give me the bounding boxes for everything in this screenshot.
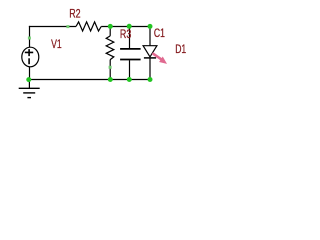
terminal tick V1 top: [28, 37, 31, 40]
ground bar 3: [27, 97, 31, 99]
svg-text:D1: D1: [175, 42, 186, 56]
junction dot bottom R3: [108, 77, 113, 82]
voltage source V1 circle: [22, 47, 39, 67]
diode D1 triangle: [143, 46, 157, 57]
LED arrow (pink): [152, 53, 166, 63]
resistor R3 top lead: [109, 26, 111, 36]
junction dot bottom C1: [127, 77, 132, 82]
terminal tick R3 bottom: [109, 66, 112, 69]
wire V1 bottom to ground junction: [29, 67, 31, 80]
capacitor C1 top plate: [120, 48, 141, 50]
diode D1 cathode bar: [144, 57, 156, 59]
resistor R3 bottom lead: [109, 60, 111, 80]
V1 plus sign: [25, 49, 33, 56]
resistor R3 zigzag: [106, 36, 114, 60]
capacitor C1 bottom plate: [120, 59, 141, 61]
junction dot ground: [26, 77, 31, 82]
capacitor C1 top lead: [129, 26, 131, 48]
ground bar 1: [19, 87, 40, 89]
wire bottom rail: [29, 79, 150, 81]
wire top rail right segment: [101, 26, 150, 28]
svg-text:R2: R2: [69, 7, 80, 21]
svg-text:R3: R3: [120, 27, 131, 41]
junction dot top C1: [127, 24, 132, 29]
resistor R2 zigzag: [76, 22, 101, 31]
ground bar 2: [23, 92, 35, 94]
diode D1 bottom lead: [149, 58, 151, 80]
svg-text:C1: C1: [154, 26, 165, 40]
svg-text:V1: V1: [51, 37, 62, 51]
junction dot top R3: [108, 24, 113, 29]
V1 minus mark: [28, 58, 30, 64]
wire V1 top to corner: [29, 26, 31, 48]
diode D1 top lead: [149, 26, 151, 46]
junction dot top D1: [148, 24, 153, 29]
ground stem: [28, 80, 30, 89]
terminal tick R2 left: [66, 25, 69, 28]
junction dot bottom D1: [148, 77, 153, 82]
capacitor C1 bottom lead: [129, 60, 131, 79]
wire top rail left segment: [29, 26, 76, 28]
